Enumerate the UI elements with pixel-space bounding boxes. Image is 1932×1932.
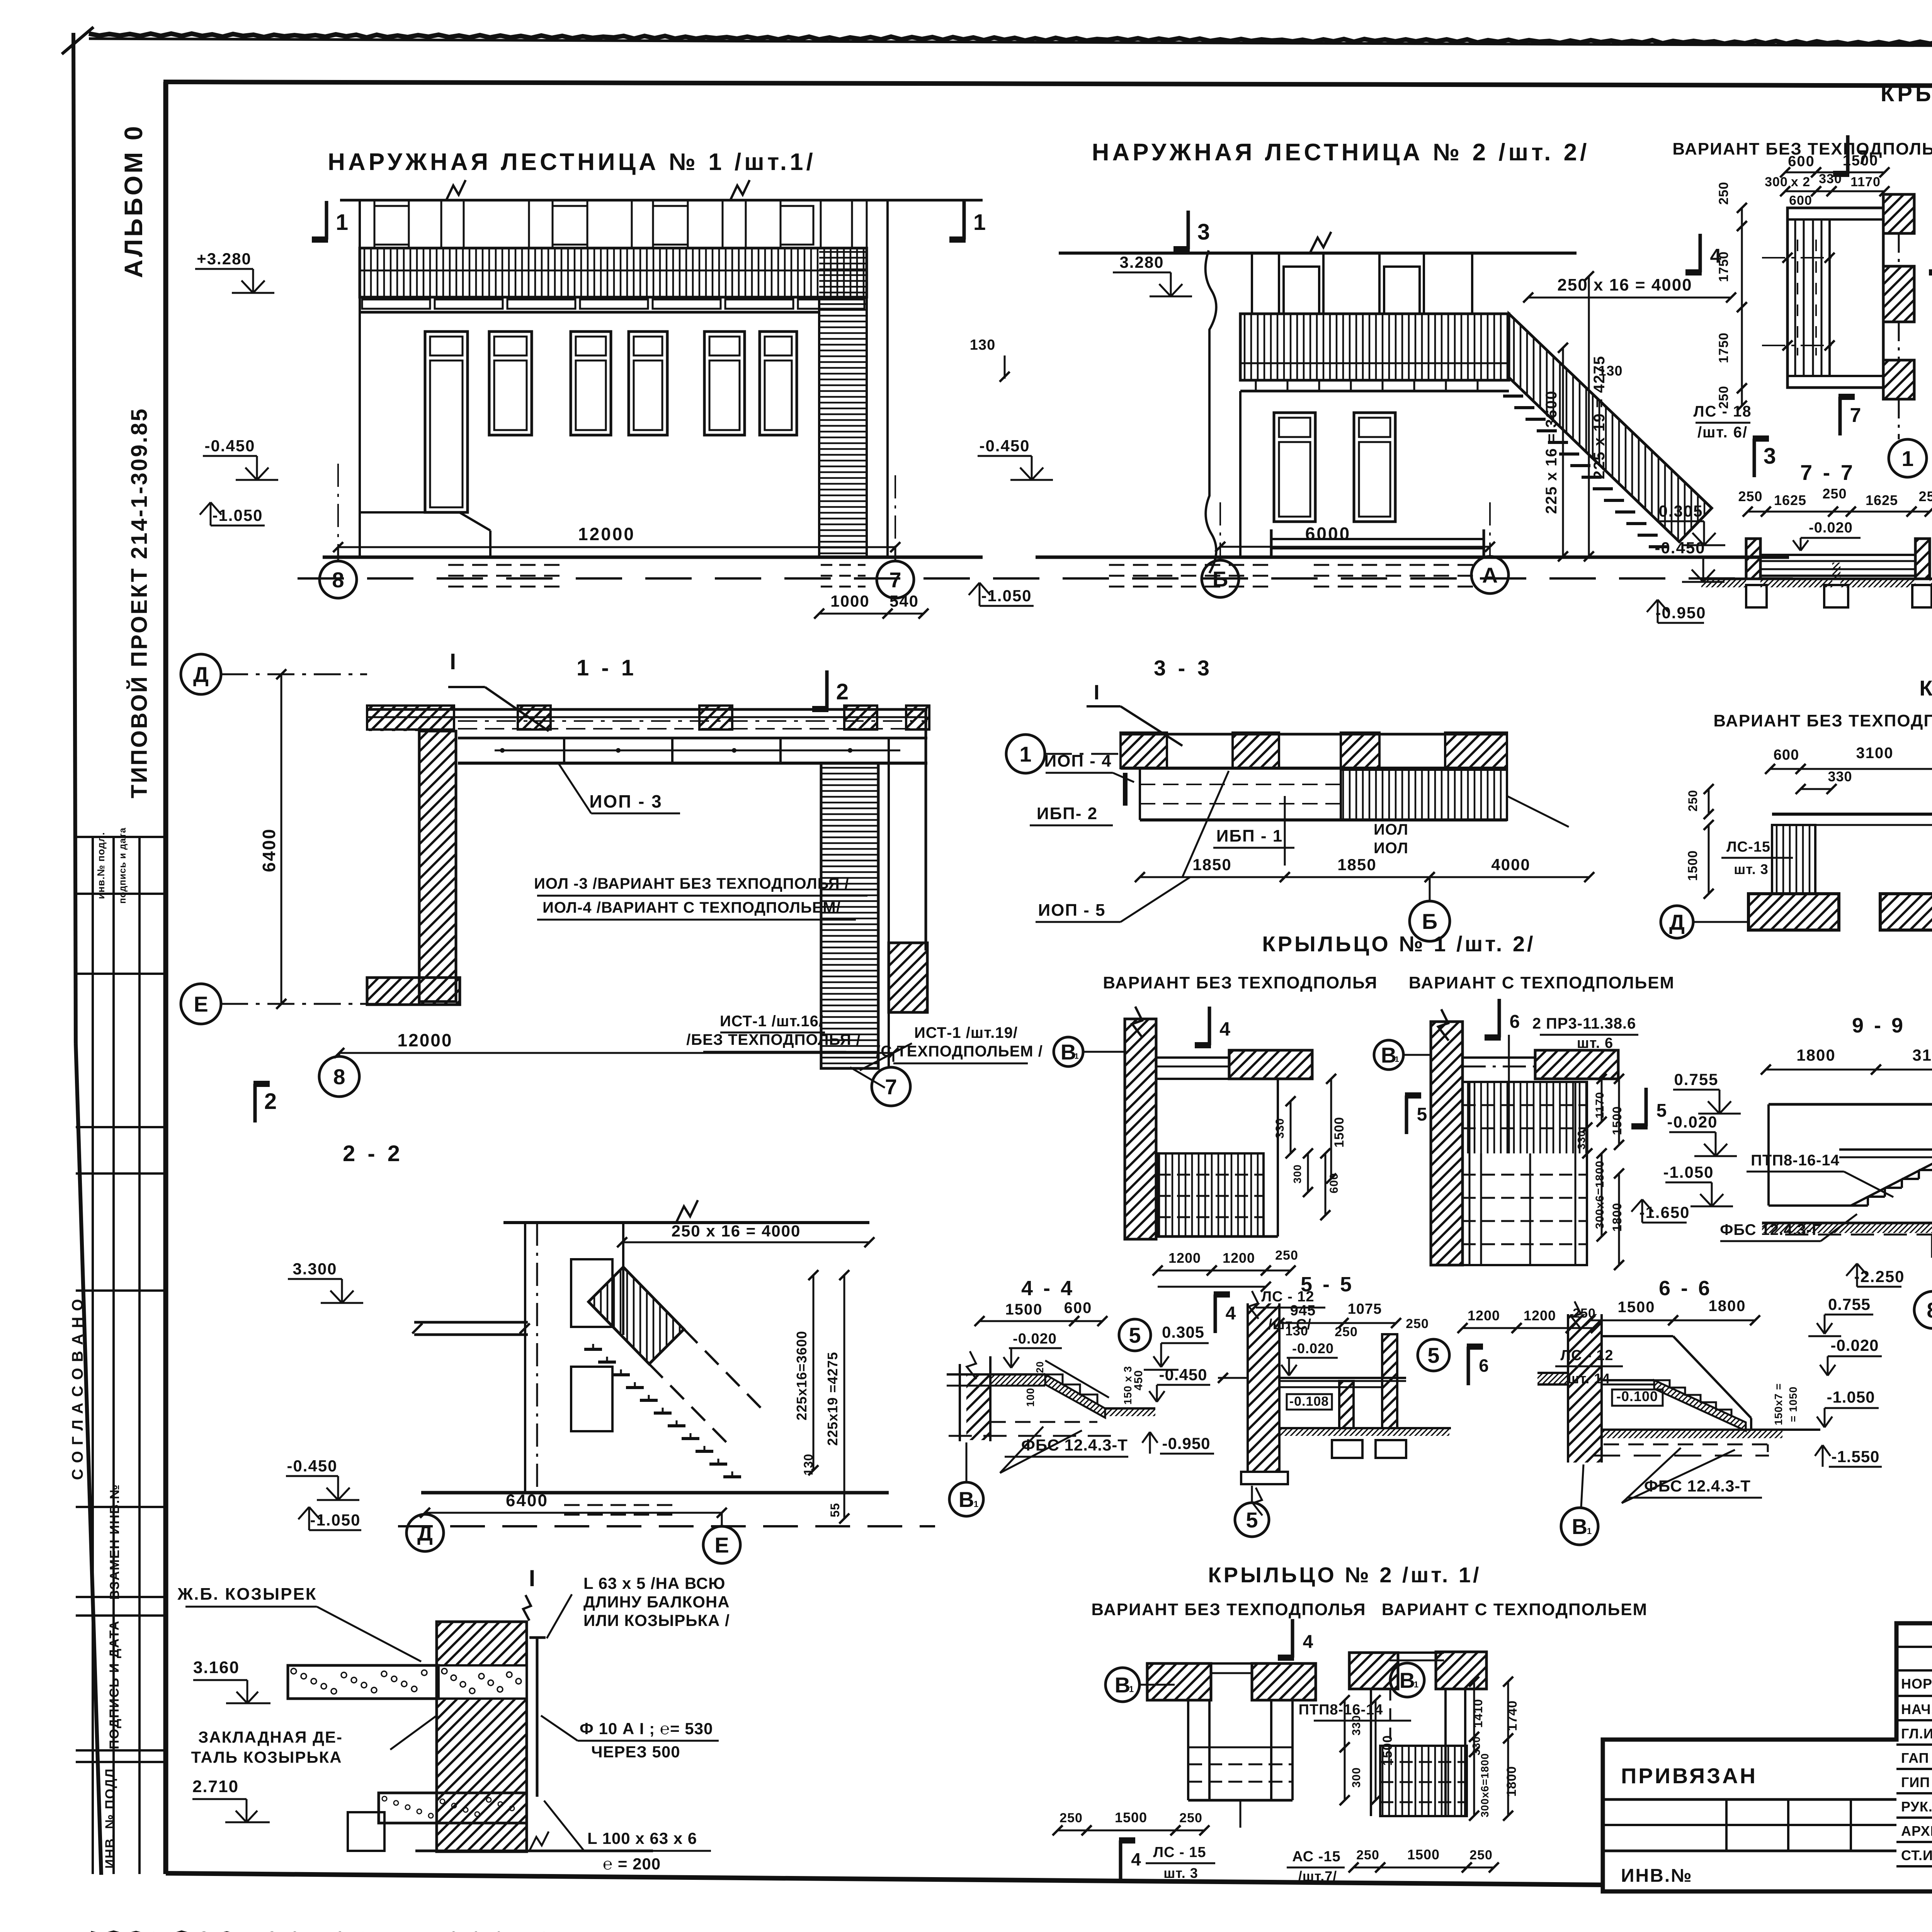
svg-text:ИОП - 3: ИОП - 3 — [589, 791, 662, 811]
svg-text:1000: 1000 — [830, 592, 869, 610]
svg-text:-1.050: -1.050 — [1663, 1163, 1714, 1181]
svg-text:1500: 1500 — [1005, 1301, 1043, 1318]
svg-text:L 100 x 63 x 6: L 100 x 63 x 6 — [587, 1829, 697, 1847]
svg-text:8: 8 — [1927, 1298, 1932, 1322]
svg-text:В: В — [1115, 1673, 1130, 1697]
svg-text:ТАЛЬ КОЗЫРЬКА: ТАЛЬ КОЗЫРЬКА — [191, 1748, 342, 1766]
svg-text:6 - 6: 6 - 6 — [1659, 1277, 1712, 1300]
svg-text:-0.108: -0.108 — [1289, 1394, 1329, 1409]
svg-text:Б: Б — [1422, 909, 1437, 934]
svg-text:-0.100: -0.100 — [1616, 1388, 1658, 1404]
svg-text:I: I — [450, 649, 456, 674]
svg-text:300: 300 — [1350, 1767, 1363, 1787]
svg-text:ВАРИАНТ БЕЗ ТЕХПОДПОЛЬЯ: ВАРИАНТ БЕЗ ТЕХПОДПОЛЬЯ — [1091, 1600, 1366, 1619]
svg-text:ИСТ-1 /шт.16/: ИСТ-1 /шт.16/ — [720, 1013, 823, 1030]
svg-text:АС -15: АС -15 — [1292, 1849, 1340, 1865]
svg-text:-0.020: -0.020 — [1809, 520, 1853, 536]
svg-text:1: 1 — [973, 210, 986, 235]
svg-text:8: 8 — [333, 1065, 345, 1089]
svg-text:3: 3 — [1764, 444, 1776, 469]
svg-text:+3.280: +3.280 — [197, 250, 252, 268]
svg-text:ВАРИАНТ БЕЗ ТЕХПОДПОЛЬЯ: ВАРИАНТ БЕЗ ТЕХПОДПОЛЬЯ — [1103, 973, 1378, 992]
svg-text:1: 1 — [974, 1499, 978, 1509]
svg-text:330: 330 — [1350, 1715, 1363, 1735]
svg-text:В: В — [959, 1487, 974, 1512]
svg-text:НАЧ.МАСТ.1: НАЧ.МАСТ.1 — [1901, 1701, 1932, 1717]
svg-text:330: 330 — [1470, 1736, 1482, 1755]
svg-text:4000: 4000 — [1491, 855, 1530, 874]
svg-text:-0.450: -0.450 — [204, 437, 255, 455]
svg-text:1500: 1500 — [1685, 850, 1700, 881]
svg-text:5: 5 — [1246, 1508, 1258, 1532]
svg-text:L 63 x 5 /НА ВСЮ: L 63 x 5 /НА ВСЮ — [583, 1574, 725, 1592]
svg-text:3.280: 3.280 — [1119, 253, 1164, 271]
svg-text:300: 300 — [1765, 175, 1788, 189]
svg-text:-0.450: -0.450 — [1655, 539, 1705, 557]
svg-text:Е: Е — [714, 1533, 729, 1557]
svg-text:1200: 1200 — [1223, 1250, 1255, 1266]
svg-text:1500: 1500 — [1610, 1106, 1624, 1135]
svg-text:7: 7 — [1850, 404, 1861, 427]
svg-text:0.755: 0.755 — [1674, 1070, 1718, 1088]
svg-text:ПРИВЯЗАН: ПРИВЯЗАН — [1621, 1764, 1757, 1788]
svg-text:Е: Е — [194, 992, 208, 1016]
svg-text:ИОЛ -3 /ВАРИАНТ БЕЗ ТЕХПОДПОЛЬ: ИОЛ -3 /ВАРИАНТ БЕЗ ТЕХПОДПОЛЬЯ / — [534, 875, 849, 892]
svg-text:ЧЕРЕЗ 500: ЧЕРЕЗ 500 — [591, 1743, 680, 1761]
svg-text:3140: 3140 — [1912, 1046, 1932, 1064]
svg-text:/шт.7/: /шт.7/ — [1298, 1868, 1337, 1884]
svg-text:шт. 3: шт. 3 — [1734, 861, 1769, 877]
svg-text:1: 1 — [1129, 1684, 1134, 1694]
svg-text:Д: Д — [1669, 910, 1685, 934]
svg-text:ПТП8-16-14: ПТП8-16-14 — [1751, 1152, 1840, 1169]
svg-text:6400: 6400 — [506, 1491, 548, 1510]
svg-text:ИБП- 2: ИБП- 2 — [1037, 804, 1098, 823]
svg-text:250: 250 — [1179, 1811, 1202, 1825]
svg-text:330: 330 — [1575, 1130, 1587, 1150]
svg-text:945: 945 — [1290, 1303, 1316, 1319]
svg-text:= 1050: = 1050 — [1787, 1386, 1799, 1422]
svg-text:ПОДПИСЬ И ДАТА: ПОДПИСЬ И ДАТА — [107, 1620, 122, 1749]
svg-text:250: 250 — [1716, 182, 1731, 205]
svg-text:А: А — [1482, 563, 1498, 587]
svg-text:5 - 5: 5 - 5 — [1301, 1273, 1354, 1296]
svg-text:1625: 1625 — [1866, 492, 1898, 508]
svg-text:130: 130 — [1598, 363, 1622, 379]
svg-text:3.300: 3.300 — [293, 1260, 337, 1278]
svg-text:1800: 1800 — [1796, 1046, 1835, 1064]
svg-text:1625: 1625 — [1774, 492, 1806, 508]
svg-text:АРХИТЕКТ.: АРХИТЕКТ. — [1901, 1823, 1932, 1839]
svg-text:1: 1 — [336, 210, 348, 235]
svg-text:4: 4 — [1131, 1849, 1141, 1869]
svg-text:/шт. 6/: /шт. 6/ — [1697, 424, 1748, 441]
svg-text:2 - 2: 2 - 2 — [343, 1141, 403, 1166]
svg-text:250: 250 — [1822, 486, 1847, 502]
svg-text:3100: 3100 — [1856, 745, 1894, 762]
svg-text:6000: 6000 — [1305, 524, 1351, 544]
svg-text:/БЕЗ ТЕХПОДПОЛЬЯ /: /БЕЗ ТЕХПОДПОЛЬЯ / — [686, 1031, 861, 1048]
svg-text:АЛЬБОМ 0: АЛЬБОМ 0 — [119, 124, 148, 278]
svg-text:1500: 1500 — [1407, 1847, 1440, 1862]
svg-text:Ф 10 А I ; ℮= 530: Ф 10 А I ; ℮= 530 — [580, 1719, 713, 1738]
svg-text:150x7 =: 150x7 = — [1772, 1383, 1784, 1425]
svg-text:300x6=1800: 300x6=1800 — [1479, 1753, 1491, 1818]
svg-text:250: 250 — [1918, 488, 1932, 504]
svg-text:СТ.ИНЖ.: СТ.ИНЖ. — [1901, 1847, 1932, 1863]
svg-text:250: 250 — [1686, 790, 1700, 811]
svg-text:НОРМОКОНТР.: НОРМОКОНТР. — [1901, 1676, 1932, 1692]
svg-text:4: 4 — [1710, 245, 1721, 267]
svg-text:ЛС - 18: ЛС - 18 — [1694, 403, 1752, 420]
svg-text:7: 7 — [885, 1075, 897, 1099]
svg-text:ГАП: ГАП — [1901, 1750, 1929, 1766]
svg-text:Ж.Б. КОЗЫРЕК: Ж.Б. КОЗЫРЕК — [177, 1585, 317, 1604]
svg-text:4 - 4: 4 - 4 — [1021, 1277, 1075, 1300]
svg-text:С О Г Л А С О В А Н О: С О Г Л А С О В А Н О — [69, 1298, 86, 1480]
svg-text:600: 600 — [1789, 193, 1812, 208]
svg-text:130: 130 — [801, 1454, 815, 1475]
svg-text:ИОЛ: ИОЛ — [1374, 840, 1408, 857]
svg-text:250: 250 — [1406, 1316, 1429, 1331]
svg-text:450: 450 — [1132, 1370, 1145, 1390]
svg-text:1200: 1200 — [1468, 1308, 1500, 1323]
svg-text:-0.020: -0.020 — [1667, 1113, 1718, 1131]
svg-text:КРЫЛЬЦО № 2 /шт. 1/: КРЫЛЬЦО № 2 /шт. 1/ — [1208, 1563, 1481, 1587]
svg-text:5: 5 — [1417, 1104, 1427, 1125]
svg-text:-1.050: -1.050 — [981, 587, 1032, 605]
svg-text:-1.050: -1.050 — [1827, 1388, 1875, 1406]
svg-text:шт. 6: шт. 6 — [1577, 1035, 1613, 1051]
svg-text:ИОЛ: ИОЛ — [1374, 821, 1408, 838]
svg-text:4: 4 — [1303, 1632, 1313, 1652]
svg-text:ВАРИАНТ С ТЕХПОДПОЛЬЕМ: ВАРИАНТ С ТЕХПОДПОЛЬЕМ — [1382, 1600, 1648, 1619]
svg-text:55: 55 — [828, 1503, 842, 1517]
svg-text:/С ТЕХПОДПОЛЬЕМ /: /С ТЕХПОДПОЛЬЕМ / — [876, 1043, 1043, 1060]
svg-text:1: 1 — [1587, 1526, 1592, 1536]
svg-text:7 - 7: 7 - 7 — [1800, 460, 1855, 485]
svg-text:0.305: 0.305 — [1162, 1323, 1204, 1341]
svg-text:-0.450: -0.450 — [287, 1457, 337, 1475]
svg-text:1 - 1: 1 - 1 — [577, 655, 637, 680]
svg-text:ГЛ.ИНЖ.М.: ГЛ.ИНЖ.М. — [1901, 1726, 1932, 1742]
svg-text:2.710: 2.710 — [192, 1777, 239, 1796]
svg-text:1800: 1800 — [1504, 1766, 1519, 1797]
svg-text:225 x 16 = 3600: 225 x 16 = 3600 — [1543, 390, 1560, 514]
svg-text:1: 1 — [1901, 446, 1913, 471]
svg-text:шт. 3: шт. 3 — [1163, 1865, 1198, 1881]
svg-text:5: 5 — [1129, 1323, 1141, 1347]
svg-text:5: 5 — [1656, 1100, 1667, 1121]
svg-text:1500: 1500 — [1115, 1810, 1147, 1825]
svg-text:1: 1 — [1074, 1052, 1078, 1061]
svg-text:1075: 1075 — [1348, 1301, 1382, 1317]
svg-text:-0.020: -0.020 — [1830, 1336, 1879, 1354]
svg-text:300x6=1800: 300x6=1800 — [1594, 1160, 1606, 1229]
svg-text:1850: 1850 — [1337, 855, 1376, 874]
svg-text:7: 7 — [889, 568, 901, 592]
svg-text:12000: 12000 — [398, 1030, 453, 1050]
svg-text:1800: 1800 — [1709, 1298, 1746, 1315]
svg-text:0.305: 0.305 — [1658, 502, 1703, 520]
svg-text:1: 1 — [1414, 1680, 1418, 1689]
svg-text:1: 1 — [1019, 742, 1031, 766]
svg-text:300: 300 — [1291, 1164, 1303, 1184]
svg-text:1200: 1200 — [1524, 1308, 1556, 1323]
svg-text:250: 250 — [1275, 1248, 1298, 1263]
svg-text:ГИП: ГИП — [1901, 1774, 1930, 1790]
svg-text:подпись и дата: подпись и дата — [117, 827, 128, 903]
svg-text:ИСТ-1 /шт.19/: ИСТ-1 /шт.19/ — [914, 1024, 1018, 1041]
svg-text:100: 100 — [1024, 1388, 1036, 1407]
svg-text:20: 20 — [1034, 1361, 1046, 1373]
svg-text:Д: Д — [417, 1521, 433, 1545]
svg-text:250: 250 — [1356, 1848, 1379, 1862]
svg-text:600: 600 — [1788, 153, 1815, 170]
svg-text:КРЫЛЬЦО № 3 /шт. 4/: КРЫЛЬЦО № 3 /шт. 4/ — [1881, 81, 1932, 106]
svg-text:-0.450: -0.450 — [1159, 1366, 1207, 1384]
svg-text:-1.550: -1.550 — [1831, 1447, 1879, 1466]
svg-text:инв.№ подл.: инв.№ подл. — [95, 832, 107, 899]
svg-text:НАРУЖНАЯ ЛЕСТНИЦА № 1 /шт.1: НАРУЖНАЯ ЛЕСТНИЦА № 1 /шт.1/ — [328, 149, 816, 175]
svg-text:250: 250 — [1335, 1325, 1358, 1339]
svg-text:I: I — [529, 1565, 536, 1591]
svg-text:1170: 1170 — [1850, 175, 1881, 189]
svg-text:1750: 1750 — [1716, 332, 1731, 363]
svg-text:-0.450: -0.450 — [979, 437, 1030, 455]
svg-text:ФБС 12.4.3-Т: ФБС 12.4.3-Т — [1021, 1436, 1128, 1454]
svg-text:250: 250 — [1738, 488, 1762, 504]
svg-text:-0.950: -0.950 — [1162, 1434, 1210, 1452]
svg-text:2 ПР3-11.38.6: 2 ПР3-11.38.6 — [1532, 1015, 1636, 1032]
svg-text:В: В — [1381, 1043, 1396, 1067]
svg-text:1410: 1410 — [1471, 1699, 1485, 1728]
svg-text:225x19 =4275: 225x19 =4275 — [825, 1352, 840, 1446]
svg-text:2: 2 — [836, 679, 849, 704]
svg-text:ТИПОВОЙ ПРОЕКТ 214-1-309.85: ТИПОВОЙ ПРОЕКТ 214-1-309.85 — [127, 407, 152, 798]
svg-text:x 2: x 2 — [1791, 175, 1810, 189]
svg-text:250: 250 — [1060, 1811, 1083, 1825]
svg-text:НАРУЖНАЯ ЛЕСТНИЦА № 2 /шт.: НАРУЖНАЯ ЛЕСТНИЦА № 2 /шт. 2/ — [1092, 139, 1590, 166]
svg-text:250 x 16 = 4000: 250 x 16 = 4000 — [1557, 276, 1692, 294]
svg-text:ЛС-15: ЛС-15 — [1726, 839, 1770, 855]
svg-text:1170: 1170 — [1594, 1092, 1606, 1118]
svg-text:1200: 1200 — [1168, 1250, 1201, 1266]
svg-text:В: В — [1572, 1514, 1587, 1539]
svg-text:130: 130 — [1285, 1324, 1308, 1338]
svg-text:ИОП - 5: ИОП - 5 — [1038, 901, 1105, 920]
svg-text:330: 330 — [1274, 1118, 1286, 1138]
svg-text:8: 8 — [332, 568, 344, 592]
svg-text:6: 6 — [1510, 1012, 1520, 1032]
svg-text:В: В — [1061, 1040, 1076, 1064]
svg-text:1500: 1500 — [1618, 1299, 1655, 1316]
svg-text:3.160: 3.160 — [193, 1658, 240, 1677]
svg-text:3 - 3: 3 - 3 — [1154, 656, 1213, 680]
svg-text:ИНВ. № ПОДЛ.: ИНВ. № ПОДЛ. — [103, 1764, 117, 1869]
svg-text:-1.050: -1.050 — [212, 506, 263, 524]
svg-text:-1.050: -1.050 — [310, 1511, 361, 1529]
svg-text:ИБП - 1: ИБП - 1 — [1216, 827, 1283, 845]
svg-text:600: 600 — [1328, 1173, 1340, 1193]
svg-text:600: 600 — [1064, 1299, 1092, 1316]
svg-text:600: 600 — [1774, 747, 1799, 763]
svg-text:РУК.ГР.ИНЖ.: РУК.ГР.ИНЖ. — [1901, 1799, 1932, 1815]
svg-text:-0.020: -0.020 — [1013, 1331, 1057, 1347]
svg-text:250: 250 — [1469, 1848, 1493, 1862]
svg-text:В: В — [1400, 1668, 1415, 1692]
svg-text:1500: 1500 — [1843, 153, 1879, 169]
svg-text:ЛС - 15: ЛС - 15 — [1153, 1844, 1206, 1861]
svg-text:1500: 1500 — [1332, 1117, 1347, 1148]
svg-text:4: 4 — [1226, 1303, 1236, 1324]
svg-text:4: 4 — [1219, 1018, 1230, 1040]
svg-text:9 - 9: 9 - 9 — [1852, 1014, 1905, 1037]
svg-text:I: I — [1094, 681, 1099, 704]
svg-text:250 x 16 = 4000: 250 x 16 = 4000 — [672, 1222, 801, 1240]
svg-text:225x16=3600: 225x16=3600 — [794, 1331, 810, 1420]
svg-text:КРЫЛЬЦО № 5 /шт.1/: КРЫЛЬЦО № 5 /шт.1/ — [1919, 676, 1932, 700]
svg-text:Д: Д — [193, 662, 209, 687]
svg-text:ИНВ.№: ИНВ.№ — [1621, 1866, 1693, 1886]
svg-text:1850: 1850 — [1192, 855, 1231, 874]
svg-text:6400: 6400 — [259, 828, 279, 872]
svg-text:ДЛИНУ БАЛКОНА: ДЛИНУ БАЛКОНА — [583, 1593, 730, 1611]
svg-text:330: 330 — [1819, 172, 1842, 186]
svg-text:130: 130 — [970, 337, 995, 353]
svg-text:ФБС 12.4.3-Г: ФБС 12.4.3-Г — [1720, 1221, 1821, 1238]
svg-text:КРЫЛЬЦО № 1 /шт. 2/: КРЫЛЬЦО № 1 /шт. 2/ — [1262, 932, 1535, 956]
svg-text:ИЛИ КОЗЫРЬКА /: ИЛИ КОЗЫРЬКА / — [583, 1611, 730, 1629]
svg-text:330: 330 — [1828, 769, 1852, 784]
svg-text:5: 5 — [1427, 1343, 1439, 1367]
svg-text:Б: Б — [1213, 567, 1228, 591]
svg-text:1: 1 — [1395, 1055, 1399, 1064]
svg-text:ВЗАМЕН ИНВ.№: ВЗАМЕН ИНВ.№ — [107, 1484, 122, 1600]
svg-text:2: 2 — [264, 1089, 277, 1114]
svg-text:0.755: 0.755 — [1828, 1295, 1871, 1313]
svg-text:-0.020: -0.020 — [1292, 1340, 1334, 1356]
svg-text:℮ = 200: ℮ = 200 — [603, 1855, 661, 1873]
svg-text:3: 3 — [1197, 219, 1210, 245]
svg-text:ЗАКЛАДНАЯ ДЕ-: ЗАКЛАДНАЯ ДЕ- — [198, 1728, 343, 1746]
svg-text:1800: 1800 — [1610, 1202, 1624, 1231]
svg-text:ИОЛ-4 /ВАРИАНТ С ТЕХПОДПОЛЬЕМ/: ИОЛ-4 /ВАРИАНТ С ТЕХПОДПОЛЬЕМ/ — [543, 899, 841, 916]
svg-text:12000: 12000 — [578, 524, 635, 544]
svg-text:ВАРИАНТ БЕЗ ТЕХПОДПОЛЬЯ: ВАРИАНТ БЕЗ ТЕХПОДПОЛЬЯ — [1713, 711, 1932, 730]
svg-text:1740: 1740 — [1505, 1700, 1520, 1731]
svg-text:ВАРИАНТ С ТЕХПОДПОЛЬЕМ: ВАРИАНТ С ТЕХПОДПОЛЬЕМ — [1409, 973, 1675, 992]
svg-text:6: 6 — [1479, 1355, 1489, 1376]
